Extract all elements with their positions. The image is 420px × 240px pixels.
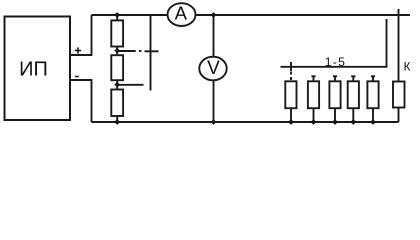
svg-text:A: A	[175, 3, 188, 24]
wire between R2 and R3	[116, 80, 118, 89]
resistor bank R-5	[372, 76, 374, 81]
wire dashed lead to resistor 1	[290, 72, 292, 75]
node tap2	[114, 82, 120, 88]
resistor K box	[393, 82, 405, 108]
node bank 1	[288, 119, 294, 125]
wire + terminal	[70, 15, 92, 55]
wire top rail right	[196, 14, 411, 16]
wire voltmeter drop	[213, 15, 215, 58]
resistor R3 (rheostat section 3)	[111, 90, 123, 117]
ammeter A1 circle	[168, 3, 196, 26]
voltmeter V1 circle	[199, 57, 226, 81]
node rheostat bottom	[114, 119, 120, 125]
node rheostat top	[114, 12, 120, 18]
wire rheostat bottom lead	[116, 116, 118, 122]
svg-text:ИП: ИП	[19, 59, 48, 81]
node tap1	[114, 48, 120, 54]
label -	[75, 76, 79, 78]
wire - terminal	[70, 80, 92, 122]
label +	[75, 47, 81, 53]
wire selector bracket	[281, 19, 387, 67]
resistor bank R-2	[313, 76, 315, 81]
resistor bank R-3	[334, 76, 336, 81]
resistor R2 (rheostat section 2)	[111, 55, 123, 80]
node bank 2	[311, 119, 317, 125]
wire tap 1	[119, 50, 136, 52]
wire top rail left	[92, 14, 169, 16]
wire between R1 and R2	[116, 47, 118, 56]
power supply box ИП	[5, 17, 71, 121]
node bank 3	[332, 119, 338, 125]
node voltmeter top	[211, 12, 217, 18]
wire tap 1 dash	[139, 50, 142, 52]
wire selector tick	[290, 62, 292, 71]
resistor bank R-4	[352, 76, 354, 81]
wire slider	[150, 15, 152, 91]
svg-text:V: V	[207, 58, 220, 79]
wire K bottom lead	[398, 108, 400, 123]
wire rheostat top lead	[116, 15, 118, 20]
svg-text:К: К	[404, 61, 411, 73]
resistor bank R-1	[285, 81, 296, 108]
resistor R1 (rheostat section 1)	[111, 20, 123, 46]
wire voltmeter bottom lead	[213, 80, 215, 122]
wire tap 2	[119, 84, 144, 86]
svg-text:1-5: 1-5	[325, 55, 347, 69]
node bank 5	[370, 119, 376, 125]
wire switch K vertical	[398, 9, 400, 82]
wire bottom rail	[92, 121, 399, 123]
node voltmeter bottom	[211, 119, 217, 125]
node bank 4	[350, 119, 356, 125]
wire tap 1 crossbar	[145, 50, 159, 52]
